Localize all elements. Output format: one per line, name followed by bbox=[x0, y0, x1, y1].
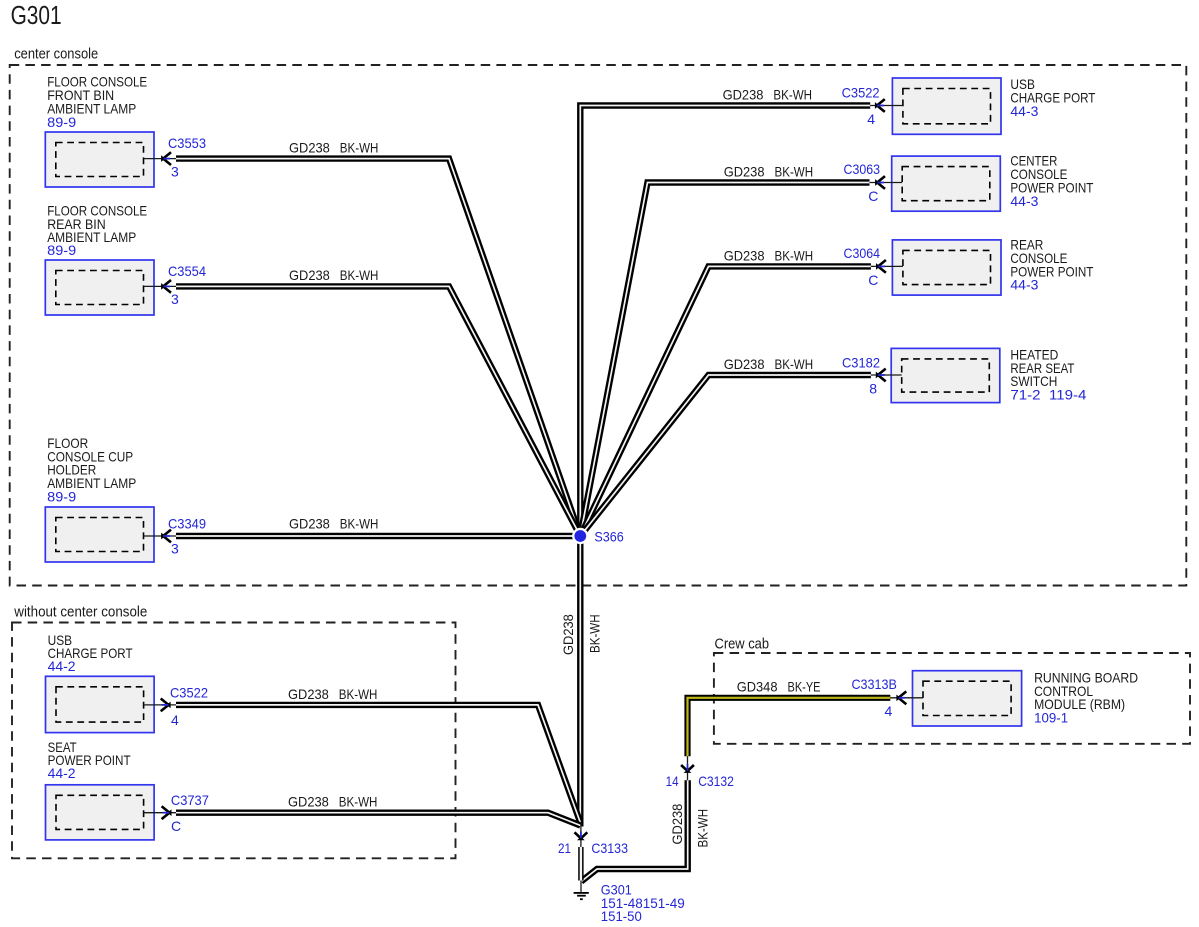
svg-text:71-2 119-4: 71-2 119-4 bbox=[1010, 387, 1086, 403]
wire GD238 BK-WH from seat power point C3737 to C3133 junction bbox=[176, 813, 581, 826]
node G301 labels bbox=[601, 882, 685, 924]
svg-text:C3063: C3063 bbox=[844, 161, 881, 177]
component heated rear seat switch bbox=[871, 346, 1087, 402]
svg-text:14: 14 bbox=[666, 773, 679, 789]
svg-text:C3349: C3349 bbox=[168, 515, 206, 531]
connector C3553 pin 3 bbox=[162, 135, 206, 179]
svg-text:BK-WH: BK-WH bbox=[339, 686, 378, 702]
wire GD238 BK-WH from C3554 to splice S366 bbox=[176, 286, 580, 536]
svg-text:GD238: GD238 bbox=[288, 794, 329, 810]
wire GD238 BK-WH from S366 to rear console power point C3064 bbox=[580, 266, 871, 536]
component rear console power point bbox=[871, 237, 1094, 296]
wire GD238 BK-WH from C3553 to splice S366 bbox=[176, 159, 580, 536]
svg-text:44-2: 44-2 bbox=[48, 765, 76, 781]
component center console power point bbox=[870, 153, 1094, 212]
component C3349: floor console cup holder ambient lamp bbox=[45, 435, 176, 562]
svg-text:GD238: GD238 bbox=[724, 356, 765, 372]
svg-text:GD238: GD238 bbox=[289, 516, 330, 532]
wire GD238 BK-WH from USB charge port C3522 (without console) down to C3133 junction bbox=[176, 705, 581, 823]
svg-text:C3522: C3522 bbox=[842, 84, 880, 100]
connector C3522 (bottom) pin 4 bbox=[161, 684, 208, 728]
splice node S366 bbox=[572, 528, 624, 545]
svg-text:C3064: C3064 bbox=[844, 245, 881, 261]
connector C3522 (top) pin 4 bbox=[842, 84, 885, 127]
section box: Crew cab bbox=[714, 653, 1190, 744]
svg-text:BK-WH: BK-WH bbox=[339, 794, 378, 810]
svg-text:GD238: GD238 bbox=[560, 614, 576, 655]
svg-text:C: C bbox=[171, 818, 181, 834]
svg-text:center console: center console bbox=[14, 45, 98, 62]
svg-text:C3553: C3553 bbox=[168, 135, 206, 151]
svg-text:S366: S366 bbox=[594, 528, 624, 544]
section box: without center console bbox=[12, 623, 456, 859]
svg-text:Crew cab: Crew cab bbox=[715, 636, 770, 653]
svg-text:GD238: GD238 bbox=[724, 164, 765, 180]
section box: center console bbox=[10, 65, 1187, 586]
component C3554: floor console rear bin ambient lamp bbox=[45, 203, 176, 315]
svg-text:BK-WH: BK-WH bbox=[773, 87, 812, 103]
svg-text:4: 4 bbox=[171, 712, 179, 728]
component USB charge port (without console) bbox=[46, 632, 177, 733]
wire GD238 BK-WH trunk from S366 down to connector C3133 bbox=[577, 536, 583, 827]
svg-text:44-3: 44-3 bbox=[1010, 193, 1038, 209]
svg-text:GD238: GD238 bbox=[288, 686, 329, 702]
connector C3063 pin C bbox=[844, 161, 886, 204]
svg-text:89-9: 89-9 bbox=[47, 114, 76, 130]
svg-text:3: 3 bbox=[171, 291, 179, 307]
svg-text:C3133: C3133 bbox=[591, 840, 628, 856]
wire GD348 BK-YE from RBM C3313B to connector C3132 bbox=[688, 698, 891, 757]
connector C3737 pin C bbox=[162, 792, 209, 834]
svg-text:21: 21 bbox=[558, 840, 571, 856]
svg-text:C: C bbox=[868, 188, 878, 204]
svg-text:C3182: C3182 bbox=[842, 355, 880, 371]
wire GD238 BK-WH from S366 up/right to USB charge port C3522 bbox=[580, 106, 870, 537]
svg-text:8: 8 bbox=[869, 381, 877, 397]
connector C3313B pin 4 bbox=[852, 676, 907, 719]
svg-text:GD238: GD238 bbox=[724, 247, 765, 263]
svg-text:BK-WH: BK-WH bbox=[695, 809, 711, 848]
wire GD238 BK-WH from C3349 to splice S366 bbox=[176, 533, 580, 539]
svg-text:BK-WH: BK-WH bbox=[340, 267, 379, 283]
svg-text:C3522: C3522 bbox=[170, 684, 208, 700]
svg-text:44-3: 44-3 bbox=[1010, 277, 1038, 293]
component USB charge port (top right) bbox=[870, 76, 1096, 134]
svg-text:44-3: 44-3 bbox=[1010, 103, 1038, 119]
svg-text:BK-YE: BK-YE bbox=[788, 679, 821, 695]
svg-text:C3737: C3737 bbox=[171, 792, 209, 808]
svg-text:BK-WH: BK-WH bbox=[340, 139, 379, 155]
svg-text:C3554: C3554 bbox=[168, 263, 206, 279]
svg-text:G301: G301 bbox=[11, 0, 62, 30]
svg-text:GD238: GD238 bbox=[669, 804, 685, 845]
svg-text:BK-WH: BK-WH bbox=[587, 614, 603, 653]
svg-text:C3132: C3132 bbox=[698, 773, 734, 789]
svg-text:GD238: GD238 bbox=[289, 267, 330, 283]
svg-text:89-9: 89-9 bbox=[47, 242, 76, 258]
connector C3182 pin 8 bbox=[842, 355, 886, 397]
svg-text:BK-WH: BK-WH bbox=[775, 164, 814, 180]
component C3553: floor console front bin ambient lamp bbox=[45, 74, 176, 187]
svg-text:without center console: without center console bbox=[13, 603, 147, 620]
svg-text:89-9: 89-9 bbox=[47, 488, 76, 504]
connector C3132 inline, pin 14 bbox=[666, 756, 734, 789]
ground symbol G301 bbox=[574, 881, 589, 900]
wire GD238 BK-WH from S366 to heated rear seat switch C3182 bbox=[580, 375, 871, 536]
svg-text:4: 4 bbox=[867, 111, 875, 127]
svg-text:GD238: GD238 bbox=[289, 139, 330, 155]
svg-text:109-1: 109-1 bbox=[1034, 710, 1068, 726]
connector C3554 pin 3 bbox=[162, 263, 206, 307]
component seat power point bbox=[46, 739, 177, 840]
svg-text:3: 3 bbox=[171, 541, 179, 557]
svg-text:C3313B: C3313B bbox=[852, 676, 897, 692]
connector C3349 pin 3 bbox=[162, 515, 206, 556]
wire GD238 BK-WH from S366 to center console power point C3063 bbox=[580, 183, 869, 537]
svg-text:4: 4 bbox=[885, 703, 893, 719]
svg-text:151-50: 151-50 bbox=[601, 908, 642, 924]
svg-text:GD348: GD348 bbox=[737, 679, 778, 695]
svg-text:BK-WH: BK-WH bbox=[340, 516, 379, 532]
svg-text:GD238: GD238 bbox=[723, 87, 764, 103]
wire GD238 BK-WH from C3132 down and left to ground lead bbox=[581, 780, 688, 881]
component running board control module (RBM) bbox=[890, 669, 1138, 726]
svg-text:C: C bbox=[868, 272, 878, 288]
wire stub below C3133 to ground G301 bbox=[578, 847, 583, 881]
connector C3133 inline, pin 21 bbox=[558, 824, 628, 856]
svg-text:44-2: 44-2 bbox=[48, 658, 76, 674]
svg-text:BK-WH: BK-WH bbox=[775, 247, 814, 263]
svg-text:BK-WH: BK-WH bbox=[775, 356, 814, 372]
svg-text:3: 3 bbox=[171, 163, 179, 179]
connector C3064 pin C bbox=[844, 245, 886, 288]
